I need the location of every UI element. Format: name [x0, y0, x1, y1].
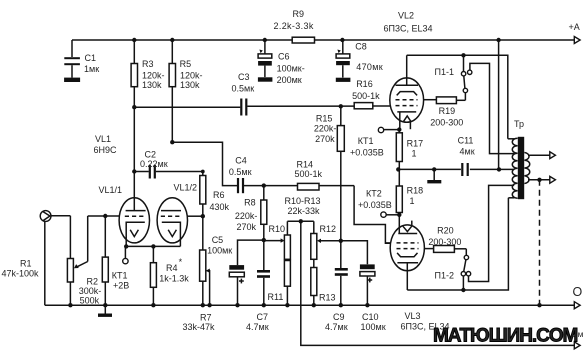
junction R3-C2 (VL1/1 anode) [132, 169, 136, 173]
svg-text:R1: R1 [20, 259, 32, 269]
svg-text:R2: R2 [87, 277, 99, 287]
svg-text:1k-1.3k: 1k-1.3k [159, 274, 189, 284]
junction ground rail-R7 [201, 303, 205, 307]
svg-text:R6: R6 [213, 190, 225, 200]
switch П1-1 [435, 55, 472, 92]
resistor R1 (volume pot) [2, 216, 74, 305]
terminal +A [569, 22, 581, 44]
svg-text:0.5мк: 0.5мк [229, 167, 252, 177]
svg-text:VL2: VL2 [398, 11, 414, 21]
pentode VL2 [390, 55, 437, 129]
svg-text:VL3: VL3 [405, 311, 421, 321]
svg-text:C4: C4 [235, 156, 247, 166]
svg-text:270k: 270k [315, 134, 335, 144]
svg-text:C5: C5 [212, 235, 224, 245]
svg-text:1: 1 [412, 149, 417, 159]
transformer Tp [508, 119, 530, 199]
junction C3 line-R16-R15 [339, 104, 343, 108]
svg-text:120k-: 120k- [142, 71, 165, 81]
resistor R18 [396, 169, 423, 233]
junction secondary-dashed return [537, 178, 541, 182]
capacitor C5 [207, 235, 264, 305]
svg-text:О: О [573, 285, 583, 299]
terminal secondary top [550, 152, 556, 159]
svg-text:200-300: 200-300 [430, 118, 463, 128]
svg-text:200мк: 200мк [277, 75, 302, 85]
junction VL2 cathode-KT1-R17 [397, 127, 401, 131]
junction ground rail-C7 [262, 303, 266, 307]
junction VL3 anode line-П1-2 [461, 288, 465, 292]
junction cathode-R4 [151, 244, 155, 248]
junction ground line-ground symbol [432, 167, 436, 171]
resistor R11 [268, 259, 291, 305]
svg-text:220k-: 220k- [235, 211, 258, 221]
wire R10-R12 top link [287, 220, 313, 222]
wire VL3 anode to transformer bottom [407, 198, 508, 290]
test point KT1 [112, 246, 129, 290]
junction VL1/2 grid-R6-R7 [201, 214, 205, 218]
svg-text:C9: C9 [333, 312, 345, 322]
resistor R6 [200, 172, 230, 251]
input connector X1 [40, 211, 70, 222]
junction R10-R12 bias feed [299, 219, 303, 223]
svg-text:R14: R14 [297, 160, 314, 170]
svg-text:200-300: 200-300 [428, 237, 461, 247]
capacitor C4 [229, 156, 298, 194]
svg-text:270k: 270k [237, 222, 257, 232]
svg-text:C8: C8 [355, 42, 367, 52]
svg-text:R15: R15 [316, 114, 333, 124]
svg-text:R17: R17 [407, 139, 424, 149]
svg-text:R13: R13 [319, 293, 336, 303]
wire П1-2 to UL tap 2 [469, 185, 515, 281]
svg-text:130k: 130k [142, 80, 162, 90]
wire П1-1 to UL tap 1 [470, 63, 514, 153]
resistor R3 [131, 40, 164, 211]
wire common cathode [126, 245, 180, 247]
wire secondary bottom lead [528, 179, 550, 181]
resistor R8 [235, 186, 267, 241]
svg-text:C7: C7 [257, 312, 269, 322]
svg-text:+0.035В: +0.035В [358, 200, 392, 210]
resistor R12 [311, 221, 336, 259]
junction VL3 cathode-KT2-R18 [397, 213, 401, 217]
triode VL1/1 [99, 185, 150, 246]
resistor R9 [274, 9, 315, 43]
wire +A down to centre tap [498, 40, 500, 169]
capacitor C11 [458, 136, 475, 177]
svg-text:C6: C6 [278, 52, 290, 62]
resistor R7 (preset) [183, 250, 216, 332]
resistor R4 [150, 246, 189, 305]
junction ground rail-R11 [285, 303, 289, 307]
svg-text:6Н9С: 6Н9С [94, 145, 118, 155]
resistor R14 [295, 160, 355, 191]
junction ground rail-R13 [312, 303, 316, 307]
svg-text:R4: R4 [166, 263, 178, 273]
label VL3 [401, 311, 450, 332]
svg-text:4.7мк: 4.7мк [246, 322, 269, 332]
label VL2 [384, 11, 433, 34]
resistor R5 [169, 40, 202, 142]
junction centre tap-C11 line [497, 167, 501, 171]
resistor R17 [396, 130, 423, 170]
svg-text:П1-2: П1-2 [435, 271, 454, 281]
svg-text:R3: R3 [142, 59, 154, 69]
resistor R16 [352, 79, 390, 109]
svg-text:100мк: 100мк [207, 246, 232, 256]
wire secondary return (dashed) [539, 180, 541, 305]
junction ground rail-R2 [103, 303, 107, 307]
svg-text:4.7мк: 4.7мк [325, 322, 348, 332]
svg-text:R18: R18 [407, 186, 424, 196]
switch П1-2 [435, 255, 471, 290]
capacitor C2 [134, 150, 203, 179]
svg-text:VL1: VL1 [95, 134, 111, 144]
svg-text:C11: C11 [458, 136, 474, 146]
resistor R2 [79, 216, 109, 306]
terminal ground rail [574, 302, 580, 309]
resistor R19 [430, 93, 465, 128]
svg-text:R10: R10 [269, 224, 286, 234]
capacitor C1 [64, 40, 99, 78]
svg-text:500k: 500k [80, 296, 100, 306]
svg-text:КТ2: КТ2 [366, 189, 382, 199]
junction ground rail-R4 [151, 303, 155, 307]
wire +A top rail [72, 39, 575, 41]
junction R8-C5-C7-R10 wiper [262, 238, 266, 242]
svg-text:33k-47k: 33k-47k [183, 322, 216, 332]
svg-text:+А: +А [569, 22, 580, 32]
junction VL2 anode line - П1-1 [461, 53, 465, 57]
svg-text:C3: C3 [238, 72, 250, 82]
wire R12 wiper [317, 239, 341, 243]
resistor R15 [314, 106, 344, 241]
pentode VL3 [385, 221, 433, 290]
junction rail-C8 [340, 38, 344, 42]
ground symbol under R2 [98, 305, 112, 317]
junction grid line-R2 [103, 214, 107, 218]
svg-text:+2В: +2В [113, 281, 129, 291]
label R10-R13 22k-33k [285, 196, 321, 216]
svg-text:R10-R13: R10-R13 [285, 196, 321, 206]
junction R3-C3 [132, 105, 136, 109]
svg-text:R9: R9 [293, 9, 305, 19]
junction ground rail-secondary return [537, 303, 541, 307]
resistor R13 [311, 259, 336, 305]
wire bias rail -Cm [301, 221, 575, 345]
wire bottom ground rail [45, 304, 575, 306]
junction ground rail-C5 [235, 303, 239, 307]
junction R15-C9-C10-R12 wiper [339, 239, 343, 243]
wire VL1/1 grid line [74, 216, 120, 268]
capacitor C6 [258, 40, 305, 85]
wire centre tap / C11 line [398, 168, 514, 170]
svg-text:120k-: 120k- [180, 71, 203, 81]
wire VL1/2 anode to C4 [172, 142, 237, 185]
junction cathode-KT1 [124, 244, 128, 248]
svg-text:R11: R11 [268, 292, 284, 302]
svg-text:R8: R8 [244, 198, 256, 208]
svg-text:R5: R5 [180, 59, 192, 69]
svg-text:470мк: 470мк [356, 62, 383, 72]
junction rail-R3 [132, 38, 136, 42]
svg-text:1мк: 1мк [84, 64, 99, 74]
junction C4-R8-R14 [262, 183, 266, 187]
svg-text:*: * [179, 257, 183, 267]
wire R10 wiper [264, 238, 285, 242]
svg-text:П1-1: П1-1 [435, 67, 454, 77]
svg-text:4мк: 4мк [460, 147, 475, 157]
label VL1 6Н9С [94, 134, 118, 155]
capacitor C9 [325, 241, 348, 332]
svg-text:100мк-: 100мк- [277, 64, 305, 74]
capacitor C3 [134, 72, 354, 116]
ground under C1 [64, 78, 80, 82]
svg-text:МАТЮШИН.COM: МАТЮШИН.COM [433, 326, 578, 347]
ground symbol near C11 [427, 169, 441, 183]
svg-text:220k-: 220k- [314, 124, 337, 134]
junction rail-transformer centre tap [496, 38, 500, 42]
svg-text:430k: 430k [210, 202, 230, 212]
junction ground rail-C9 [339, 303, 343, 307]
wire R14 to VL3 grid [354, 186, 391, 244]
svg-text:C10: C10 [362, 312, 379, 322]
junction R17-R18-ground line [396, 167, 400, 171]
svg-text:C2: C2 [145, 150, 157, 160]
junction ground rail-C10 [365, 303, 369, 307]
svg-text:500-1k: 500-1k [352, 91, 380, 101]
svg-text:R20: R20 [437, 226, 454, 236]
svg-text:0.22мк: 0.22мк [140, 159, 168, 169]
svg-text:0.5мк: 0.5мк [232, 84, 255, 94]
junction R5-C4 (VL1/2 anode) [170, 140, 174, 144]
wire secondary top lead [528, 154, 550, 156]
svg-text:1: 1 [410, 196, 415, 206]
svg-text:VL1/2: VL1/2 [174, 183, 198, 193]
resistor R10 [269, 221, 291, 259]
junction rail-C6 [263, 38, 267, 42]
svg-text:300k-: 300k- [79, 286, 102, 296]
svg-text:500-1k: 500-1k [295, 169, 323, 179]
svg-text:100мк: 100мк [361, 322, 386, 332]
triode VL1/2 [157, 183, 197, 247]
svg-text:КТ1: КТ1 [112, 271, 128, 281]
capacitor C10 [341, 241, 386, 332]
wire input shield down to ground rail [44, 222, 46, 306]
svg-text:22k-33k: 22k-33k [288, 206, 321, 216]
test point KT1 (VL2 cathode) [350, 127, 399, 157]
resistor R20 [428, 226, 466, 256]
capacitor C8 [336, 40, 383, 82]
svg-text:C1: C1 [85, 53, 97, 63]
wire VL2 anode to transformer top [407, 55, 508, 139]
svg-text:Тр: Тр [514, 119, 524, 129]
svg-text:R12: R12 [320, 224, 337, 234]
svg-text:КТ1: КТ1 [358, 136, 374, 146]
svg-text:R16: R16 [356, 79, 373, 89]
capacitor C7 [246, 240, 270, 332]
junction rail-R5 [170, 38, 174, 42]
junction ground rail-R7 wiper [207, 303, 211, 307]
test point KT2 [358, 189, 399, 218]
terminal bias rail [574, 342, 580, 349]
svg-text:6П3С, EL34: 6П3С, EL34 [384, 24, 433, 34]
svg-text:2.2k-3.3k: 2.2k-3.3k [274, 21, 314, 31]
wire VL1/2 grid to R6 [188, 215, 203, 217]
junction ground rail-R1 [68, 303, 72, 307]
terminal secondary bottom [550, 176, 556, 183]
svg-text:VL1/1: VL1/1 [99, 185, 123, 195]
svg-text:47k-100k: 47k-100k [2, 269, 40, 279]
svg-text:130k: 130k [180, 80, 200, 90]
junction C2-R6 [201, 170, 205, 174]
svg-text:+0.035В: +0.035В [350, 148, 384, 158]
svg-text:R19: R19 [439, 106, 456, 116]
